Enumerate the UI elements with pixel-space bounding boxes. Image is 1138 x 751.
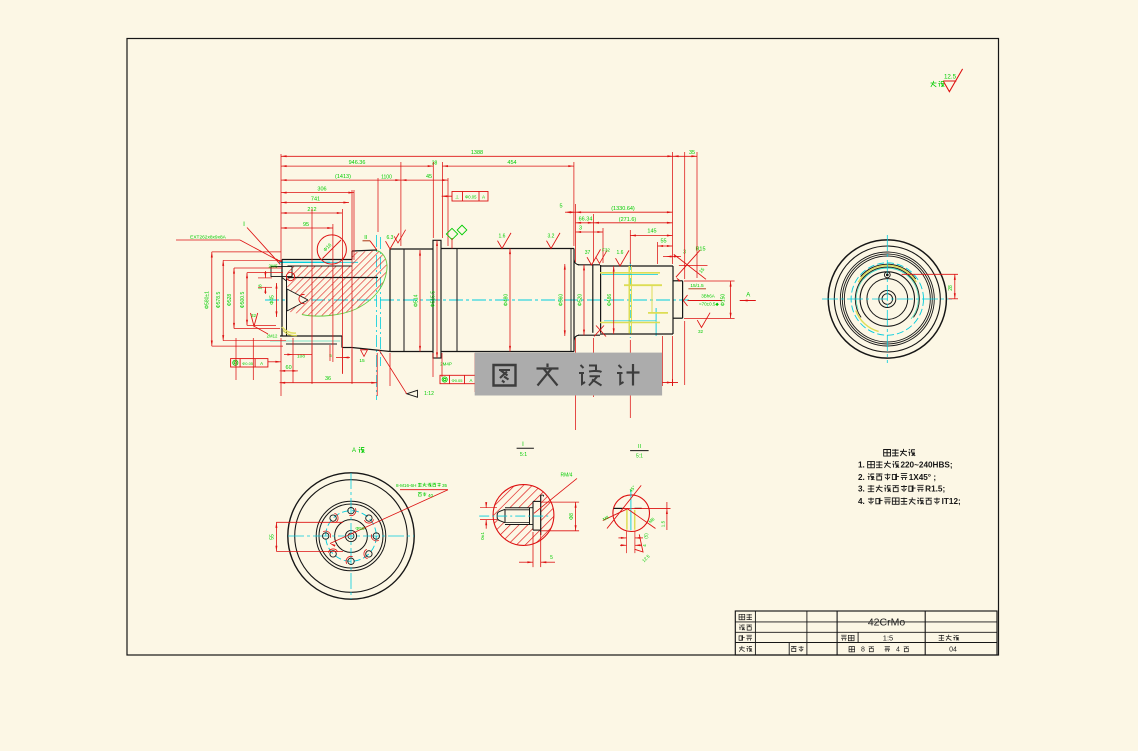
svg-text:32: 32 bbox=[251, 313, 257, 318]
svg-text:Φ560: Φ560 bbox=[558, 294, 564, 307]
svg-text:454: 454 bbox=[507, 160, 516, 166]
svg-text:28: 28 bbox=[948, 285, 954, 291]
svg-text:18: 18 bbox=[258, 284, 264, 290]
svg-text:15: 15 bbox=[359, 358, 365, 364]
svg-text:8: 8 bbox=[861, 647, 865, 654]
svg-text:2W5: 2W5 bbox=[268, 264, 278, 269]
svg-text:42CrMo: 42CrMo bbox=[868, 617, 906, 629]
svg-text:IT12;: IT12; bbox=[942, 497, 961, 506]
svg-text:38: 38 bbox=[432, 161, 438, 167]
svg-text:A: A bbox=[260, 361, 263, 366]
svg-text:Φ0.05: Φ0.05 bbox=[242, 361, 254, 366]
svg-text:12.5: 12.5 bbox=[944, 74, 957, 81]
svg-text:2.: 2. bbox=[858, 473, 865, 482]
svg-text:36: 36 bbox=[325, 376, 331, 382]
svg-text:1X45° ;: 1X45° ; bbox=[909, 473, 936, 482]
svg-text:6.3: 6.3 bbox=[387, 235, 394, 241]
svg-text:220~240HBS;: 220~240HBS; bbox=[900, 461, 952, 470]
svg-text:Φ515.5: Φ515.5 bbox=[431, 291, 437, 308]
svg-text:A: A bbox=[746, 293, 750, 299]
svg-text:(1413): (1413) bbox=[335, 174, 351, 180]
svg-text:32: 32 bbox=[698, 329, 704, 334]
svg-text:4: 4 bbox=[896, 647, 900, 654]
svg-text:5:1: 5:1 bbox=[636, 454, 643, 460]
svg-text:II: II bbox=[638, 444, 642, 450]
svg-text:(271.6): (271.6) bbox=[619, 217, 637, 223]
svg-text:Φ45: Φ45 bbox=[269, 295, 275, 305]
svg-text:1.6: 1.6 bbox=[499, 234, 506, 240]
svg-text:Φ500.5: Φ500.5 bbox=[240, 292, 246, 309]
svg-text:Φ150: Φ150 bbox=[721, 294, 727, 307]
svg-text:Φ0.05: Φ0.05 bbox=[465, 194, 477, 199]
svg-text:306: 306 bbox=[317, 187, 326, 193]
svg-text:5:1: 5:1 bbox=[520, 452, 527, 458]
svg-text:Φ528: Φ528 bbox=[227, 294, 233, 307]
svg-text:37: 37 bbox=[585, 250, 591, 256]
svg-text:RM/4: RM/4 bbox=[561, 473, 573, 479]
svg-text:15/1.5: 15/1.5 bbox=[690, 283, 704, 289]
svg-text:5: 5 bbox=[329, 353, 332, 359]
svg-text:5: 5 bbox=[559, 203, 562, 209]
svg-text:946.36: 946.36 bbox=[349, 160, 366, 166]
svg-text:40: 40 bbox=[428, 493, 434, 498]
svg-text:1.5: 1.5 bbox=[660, 520, 665, 527]
svg-text:(1330.64): (1330.64) bbox=[611, 206, 635, 212]
svg-text:60: 60 bbox=[286, 365, 292, 371]
svg-text:3.: 3. bbox=[858, 485, 865, 494]
svg-text:Φ578.5: Φ578.5 bbox=[216, 292, 222, 309]
svg-text:1:5: 1:5 bbox=[883, 634, 893, 643]
svg-text:35: 35 bbox=[442, 483, 448, 488]
svg-text:3.2: 3.2 bbox=[548, 234, 555, 240]
svg-text:0±1: 0±1 bbox=[480, 532, 486, 540]
svg-text:5: 5 bbox=[550, 555, 553, 561]
svg-text:1:12: 1:12 bbox=[424, 391, 434, 397]
svg-text:145: 145 bbox=[647, 229, 656, 235]
svg-text:≈70±0.5◆: ≈70±0.5◆ bbox=[699, 301, 719, 306]
svg-text:66.34: 66.34 bbox=[579, 216, 593, 222]
svg-text:F32: F32 bbox=[602, 248, 610, 253]
svg-text:Φ580±1: Φ580±1 bbox=[205, 291, 211, 309]
svg-text:(5): (5) bbox=[643, 533, 648, 539]
svg-text:1.6: 1.6 bbox=[617, 250, 624, 256]
svg-text:Φ480: Φ480 bbox=[504, 294, 510, 307]
svg-text:R1.5;: R1.5; bbox=[925, 485, 945, 494]
svg-text:EXT262x8x9x8A: EXT262x8x9x8A bbox=[190, 235, 227, 241]
svg-text:⊥: ⊥ bbox=[455, 195, 460, 201]
svg-text:3Bh6A: 3Bh6A bbox=[701, 294, 715, 299]
svg-text:I: I bbox=[243, 221, 245, 228]
svg-text:1388: 1388 bbox=[471, 150, 483, 156]
svg-text:3: 3 bbox=[579, 225, 582, 231]
svg-text:Φ514: Φ514 bbox=[414, 294, 420, 307]
svg-text:Φ50: Φ50 bbox=[355, 526, 364, 532]
svg-text:95: 95 bbox=[303, 222, 309, 228]
svg-text:2M12: 2M12 bbox=[267, 334, 278, 339]
svg-text:A: A bbox=[470, 378, 473, 383]
svg-text:4.: 4. bbox=[858, 497, 865, 506]
svg-text:04: 04 bbox=[949, 647, 957, 654]
svg-text:II: II bbox=[364, 235, 368, 241]
svg-text:8-M16-6H: 8-M16-6H bbox=[396, 483, 416, 488]
svg-text:Φ8: Φ8 bbox=[569, 513, 575, 520]
svg-text:55: 55 bbox=[660, 239, 666, 245]
svg-text:Φ486: Φ486 bbox=[607, 294, 613, 307]
svg-text:45: 45 bbox=[426, 174, 432, 180]
svg-text:1.: 1. bbox=[858, 461, 865, 470]
svg-text:35: 35 bbox=[689, 150, 695, 156]
svg-text:55: 55 bbox=[269, 534, 275, 540]
svg-text:741: 741 bbox=[311, 197, 320, 203]
svg-text:1100: 1100 bbox=[381, 174, 392, 180]
svg-text:A: A bbox=[352, 448, 356, 454]
svg-text:Φ0.05: Φ0.05 bbox=[452, 378, 464, 383]
svg-text:Φ520: Φ520 bbox=[578, 294, 584, 307]
